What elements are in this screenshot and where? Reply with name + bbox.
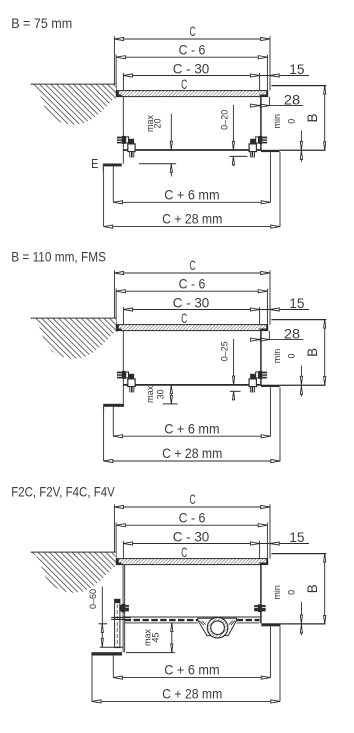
frame left end cap [116,559,119,565]
extension line C right [269,504,271,558]
frame profile (hatched) [116,91,267,97]
svg-text:B: B [305,113,320,122]
svg-text:F2C, F2V, F4C, F4V: F2C, F2V, F4C, F4V [11,484,115,500]
extension line C-6 left [115,289,117,325]
extension line 28 [268,97,270,106]
dimension C (top) [114,38,270,40]
svg-text:C: C [190,491,196,507]
svg-text:C: C [190,257,196,273]
dimension B [324,86,326,151]
dimension C + 6 mm [113,201,270,203]
extension line C left [113,504,115,555]
svg-text:C: C [181,76,187,92]
svg-text:B: B [305,584,320,593]
left trench wall (double) [122,565,124,653]
unit bottom line [124,384,262,386]
extension line C-30 left [122,307,124,331]
svg-text:C + 6 mm: C + 6 mm [164,662,219,678]
right recess floor line [280,384,326,386]
left trench wall [122,97,124,164]
extension line C-6 right [266,523,268,559]
svg-text:0: 0 [286,353,296,358]
extension line C-6 right [266,289,268,325]
svg-text:B = 110 mm, FMS: B = 110 mm, FMS [11,249,106,265]
svg-text:B = 75 mm: B = 75 mm [11,15,72,31]
bracket leg line [100,646,124,648]
svg-text:45: 45 [150,632,160,642]
svg-text:min: min [272,114,282,129]
svg-text:30: 30 [155,389,165,399]
dimension C + 6 mm [113,677,270,679]
svg-text:C + 6 mm: C + 6 mm [164,420,219,436]
right floor level line [271,319,326,321]
extension line C right [269,270,271,324]
extension line C-6 right [266,55,268,91]
svg-text:C + 6 mm: C + 6 mm [164,186,219,202]
extension line 15 left [259,307,261,325]
svg-text:0: 0 [286,590,296,595]
dimension B [324,320,326,386]
svg-text:0–25: 0–25 [220,341,230,361]
dimension 28 [253,339,303,341]
svg-text:C + 28 mm: C + 28 mm [162,445,222,461]
svg-text:C + 28 mm: C + 28 mm [162,686,222,702]
drain trap ring [207,617,228,638]
extension line 15 left [259,541,261,559]
svg-text:C + 28 mm: C + 28 mm [162,211,222,227]
extension lines to C+6 / C+28 (right) [269,152,271,202]
extension lines to C+6 / C+28 (left) [91,656,93,702]
extension line C-30 left [122,541,124,565]
svg-text:C: C [190,23,196,39]
left mounting bracket [103,404,124,407]
dimension C - 6 [116,290,267,292]
right floor level line [271,85,326,87]
slab top line [31,551,117,553]
unit base plate (dashed black) [125,619,198,621]
dimension B [324,554,326,624]
right bolt cluster [254,605,258,611]
floor slab hatch [31,553,119,593]
slab top line [31,83,117,85]
slab top line [31,317,117,319]
dimension C (top) [114,506,270,508]
svg-text:0: 0 [286,119,296,124]
extension line C right [269,36,271,90]
extension line C-30 left [122,73,124,97]
extension line C-6 left [115,523,117,559]
dimension C + 28 mm [104,226,280,228]
svg-text:E: E [91,157,98,171]
right foot plate (black) [261,150,280,152]
unit bottom line [124,149,262,151]
dimension C - 6 [116,524,267,526]
floor slab hatch [31,319,119,359]
dimension C + 28 mm [104,460,280,462]
frame right end cap [266,91,268,97]
right floor level line [271,553,326,555]
floor slab hatch [31,85,119,125]
svg-text:15: 15 [289,529,304,545]
extension line C-6 left [115,55,117,91]
frame profile (hatched) [116,559,267,565]
svg-text:15: 15 [289,61,304,77]
svg-text:C: C [181,310,187,326]
dimension C - 30 and 15 [123,543,309,545]
right recess floor line [280,149,326,151]
svg-text:C - 6: C - 6 [179,510,206,526]
extension line C left [113,36,115,87]
svg-text:20: 20 [153,118,163,128]
extension line 28 [268,331,270,340]
drain trap bracket [198,618,237,635]
svg-text:min: min [272,585,282,600]
left bracket foot plate (black) [91,652,122,655]
extension line 15 left [259,73,261,91]
left adjustable post [115,599,120,647]
foot adjuster bolt [117,137,122,144]
left bolt cluster [119,605,121,611]
dimension C - 6 [116,56,267,58]
dimension C - 30 and 15 [123,75,309,77]
svg-text:C - 30: C - 30 [173,295,210,311]
svg-text:15: 15 [289,295,304,311]
svg-text:min: min [272,349,282,364]
right foot plate (black) [261,623,280,626]
frame right end cap [266,559,268,565]
right foot plate (black) [261,385,280,387]
right recess floor line [280,623,325,625]
dimension C (top) [114,272,270,274]
svg-text:C: C [181,544,187,560]
svg-text:0–20: 0–20 [219,110,229,130]
svg-text:max: max [145,385,155,403]
svg-text:B: B [305,348,320,357]
right trench wall [260,331,262,385]
svg-text:C - 30: C - 30 [173,61,210,77]
right trench wall [260,565,262,624]
extension lines to C+6 / C+28 (left) [103,172,105,227]
right trench wall [260,97,262,150]
frame left end cap [116,325,119,331]
left trench wall [122,331,124,404]
foot adjuster bolt [262,137,267,144]
frame right end cap [266,325,268,331]
frame left end cap [116,91,119,97]
extension lines to C+6 / C+28 (right) [269,387,271,436]
svg-text:0–60: 0–60 [88,589,98,609]
svg-text:C - 6: C - 6 [179,42,206,58]
dimension C - 30 and 15 [123,309,309,311]
dimension C + 6 mm [113,435,270,437]
dimension C + 28 mm [92,700,280,702]
frame profile (hatched) [116,325,267,331]
extension line C left [113,270,115,321]
extension lines to C+6 / C+28 (right) [269,626,271,677]
svg-text:28: 28 [284,325,300,341]
unit bottom line [123,616,261,618]
svg-text:28: 28 [284,91,300,107]
extension lines to C+6 / C+28 (left) [103,410,105,461]
post clamp plate [111,616,131,618]
foot adjuster bolt [262,372,267,379]
dimension 28 [253,105,303,107]
svg-text:C - 30: C - 30 [173,529,210,545]
left mounting bracket E [103,164,122,167]
svg-text:C - 6: C - 6 [179,276,206,292]
foot adjuster bolt [117,372,122,379]
